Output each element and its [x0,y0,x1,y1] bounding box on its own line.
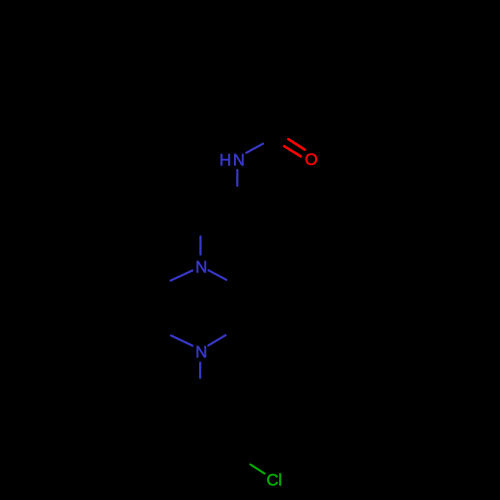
wire C3'-C4' [200,456,237,477]
svg-text:Cl: Cl [267,471,283,489]
wire CH2-N1 carbon half [199,219,201,237]
wire C3'-Cl chlorine half (green) [251,465,265,474]
wire aromatic inner line C1'=C2' [203,400,231,416]
wire CH2-N1 nitrogen half (blue) [199,237,201,255]
wire C=O double bond carbon halves [274,133,289,146]
wire aromatic inner line C5'=C6' [169,418,171,453]
wire aromatic inner line C3'=C4' [203,454,231,470]
wire C5-N2 carbon half [163,330,171,336]
wire C5-N2 nitrogen half (blue) [171,336,192,346]
wire CH2-CH2 [201,205,238,219]
wire N1-C6 carbon half [163,281,171,288]
carbon skeleton (black bonds on black background, invisible as in reference) [163,41,303,477]
wire N2-C1' carbon half [199,378,201,393]
svg-text:O: O [305,151,318,169]
wire CH2-CH3 [263,41,303,52]
wire C(alpha)-CH2 [251,52,263,96]
wire C3-N2 carbon half [226,330,239,336]
wire C6-C5 (piperazine left edge) [162,288,164,330]
wire C3-N2 nitrogen half (blue) [208,335,225,345]
wire C4'-C5' [164,456,200,477]
wire C1'-C2' (phenyl) [200,393,237,414]
wire C(alpha)-CH3 branch [214,85,251,96]
svg-text:N: N [195,259,207,277]
coloured hetero-atom bond halves [171,139,305,473]
wire N-CH2 carbon half [236,186,239,205]
wire N1-C2 carbon half [226,280,238,288]
wire C6'-C1' [164,393,200,414]
wire C2'-C3' [236,414,238,456]
wire C(alpha)-C(carbonyl) [251,96,276,137]
wire N1-C2 nitrogen half (blue) [209,270,227,280]
wire C3'-Cl carbon half [237,456,251,465]
svg-text:N: N [195,343,207,361]
wire N-C(=O) carbon half [263,137,276,144]
wire N-CH2 nitrogen half (blue, below HN) [236,170,238,186]
wire N-C(=O) nitrogen half (blue) [246,144,263,153]
svg-text:HN: HN [219,152,246,170]
wire C=O double bond oxygen halves (red) [284,139,305,156]
wire C2-C3 (piperazine right edge) [238,288,240,330]
wire N2-C1' nitrogen half (blue) [199,363,201,378]
wire N1-C6 nitrogen half (blue) [171,271,193,281]
wire C5'-C6' [163,414,165,456]
